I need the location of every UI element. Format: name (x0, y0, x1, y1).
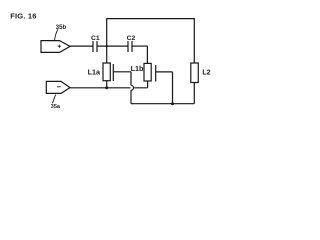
wire down with hop over bottom wire (131, 72, 134, 104)
electrode plate of L1a (112, 64, 114, 81)
wire top rail right (132, 45, 147, 47)
plus mark in 35b (58, 45, 61, 48)
minus mark in 35a (57, 86, 61, 88)
electrode plate of L1b (155, 65, 157, 82)
capacitor C2 (128, 41, 132, 52)
leader line 35b (55, 29, 58, 40)
wire down to L2 (193, 19, 195, 63)
capacitor C1 (93, 41, 97, 52)
svg-text:35a: 35a (51, 104, 61, 110)
wire L1a bottom (106, 81, 108, 88)
node junction dot bottom left (105, 86, 108, 89)
inductor L2 (191, 63, 199, 83)
inductor L1a (103, 63, 110, 81)
svg-text:L1a: L1a (88, 68, 101, 77)
wire lower rail (131, 103, 194, 105)
wire bottom rail from 35a (70, 87, 148, 89)
wire L2 bottom (193, 83, 195, 104)
wire down to bottom net (172, 72, 174, 104)
svg-text:L2: L2 (202, 70, 210, 77)
wire node A to L1a (106, 46, 108, 63)
node junction dot A (106, 45, 108, 47)
wire C2 to L1b top (146, 46, 148, 63)
transducer 35b (41, 41, 70, 53)
wire L1b plate right (156, 71, 173, 73)
wire top rail left (70, 45, 93, 47)
wire node A up (106, 19, 108, 46)
node junction dot bottom right (171, 102, 174, 105)
svg-text:L1b: L1b (131, 64, 144, 73)
wire upper rail (106, 18, 195, 20)
wire L1a plate right (113, 71, 131, 73)
wire top rail mid (97, 45, 128, 47)
inductor L1b (144, 63, 151, 81)
transducer 35a (46, 81, 70, 93)
svg-text:FIG. 16: FIG. 16 (10, 12, 36, 21)
wire L1b bottom (147, 81, 149, 88)
svg-text:35b: 35b (56, 25, 67, 31)
leader line 35a (52, 95, 55, 104)
svg-text:C1: C1 (91, 35, 100, 42)
svg-text:C2: C2 (127, 35, 136, 42)
